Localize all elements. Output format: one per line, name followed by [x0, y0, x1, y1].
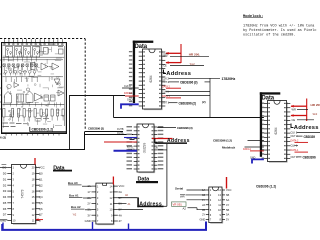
svg-text:CBD3396 (3): CBD3396 (3) — [88, 127, 104, 131]
svg-text:CBD396 (1.2): CBD396 (1.2) — [256, 185, 276, 189]
svg-text:6264: 6264 — [149, 75, 153, 82]
svg-text:Data: Data — [262, 96, 275, 102]
svg-text:DATA A: DATA A — [124, 92, 132, 95]
svg-text:D1: D1 — [3, 177, 7, 181]
svg-text:GND: GND — [0, 219, 6, 223]
svg-text:CBD3396 (1.2): CBD3396 (1.2) — [32, 128, 54, 132]
svg-text:Q7: Q7 — [39, 213, 43, 217]
svg-text:GND: GND — [200, 218, 206, 222]
svg-text:4Y: 4Y — [119, 219, 123, 223]
svg-text:VR 091: VR 091 — [173, 202, 183, 206]
svg-text:CBD3396: CBD3396 — [303, 156, 316, 160]
svg-text:CBD3396 (3): CBD3396 (3) — [177, 126, 193, 130]
svg-text:CBD3396 (2): CBD3396 (2) — [179, 101, 196, 105]
svg-text:HR 200.: HR 200. — [311, 103, 320, 107]
svg-text:Serial: Serial — [175, 187, 183, 191]
svg-text:Q5: Q5 — [39, 201, 43, 205]
svg-text:WR: WR — [163, 54, 167, 58]
svg-text:Q0: Q0 — [39, 171, 43, 175]
svg-text:Bus A0: Bus A0 — [68, 181, 78, 185]
svg-text:CLK 2: CLK 2 — [162, 77, 170, 80]
svg-text:74573: 74573 — [21, 189, 25, 198]
svg-text:OUTB: OUTB — [117, 128, 124, 131]
svg-text:CBD339: CBD339 — [304, 135, 316, 139]
svg-text:D3: D3 — [3, 189, 7, 193]
svg-text:GND: GND — [127, 99, 133, 102]
svg-text:(2): (2) — [202, 100, 206, 104]
svg-text:Modelock: Modelock — [222, 146, 235, 150]
svg-text:GND: GND — [85, 219, 91, 223]
svg-text:3Y: 3Y — [87, 213, 91, 217]
svg-text:2Y: 2Y — [87, 202, 91, 206]
svg-text:D0: D0 — [3, 171, 7, 175]
svg-text:Address: Address — [166, 71, 191, 77]
svg-text:2Y: 2Y — [202, 213, 205, 217]
svg-text:Address: Address — [294, 125, 319, 131]
svg-text:4A: 4A — [119, 213, 123, 217]
svg-text:Q3: Q3 — [39, 189, 43, 193]
svg-text:6A: 6A — [119, 190, 123, 194]
svg-text:6264: 6264 — [274, 127, 278, 134]
svg-text:5Y: 5Y — [226, 218, 229, 222]
svg-text:DGND: DGND — [129, 149, 136, 151]
svg-text:Q1: Q1 — [39, 177, 43, 181]
svg-text:'A2: 'A2 — [73, 213, 77, 217]
svg-text:17820Hz from VCO with +/- 10%: 17820Hz from VCO with +/- 10% tuna — [243, 24, 314, 29]
svg-text:Bus A2: Bus A2 — [71, 205, 81, 209]
svg-text:5A: 5A — [226, 213, 229, 217]
svg-text:by Potentiometer. Is used as P: by Potentiometer. Is used as Pixelc — [243, 28, 317, 33]
svg-text:Q2: Q2 — [39, 183, 43, 187]
svg-text:VCC: VCC — [119, 184, 125, 188]
svg-text:VCC: VCC — [39, 166, 45, 170]
svg-text:CE: CE — [163, 64, 167, 68]
svg-text:1Y: 1Y — [87, 190, 91, 194]
svg-text:Data: Data — [135, 44, 148, 50]
svg-text:'1k2: '1k2 — [312, 112, 318, 116]
svg-text:CBD3396 (3): CBD3396 (3) — [180, 81, 197, 85]
svg-text:WR: WR — [180, 195, 185, 199]
svg-text:DATA A: DATA A — [243, 148, 251, 151]
svg-text:OUT 1: OUT 1 — [162, 102, 170, 105]
svg-text:6A: 6A — [226, 198, 229, 202]
svg-text:OUT 1: OUT 1 — [291, 156, 299, 159]
svg-text:D2: D2 — [3, 183, 7, 187]
svg-text:cbd299: cbd299 — [143, 143, 147, 154]
svg-text:CE: CE — [292, 118, 296, 122]
svg-text:CBD3396 (1.2): CBD3396 (1.2) — [213, 139, 232, 143]
svg-text:CLK A: CLK A — [124, 85, 131, 88]
svg-text:6B: 6B — [226, 193, 229, 197]
svg-text:OUT 2: OUT 2 — [291, 135, 299, 138]
svg-text:oscillator of the cmd299.: oscillator of the cmd299. — [243, 33, 296, 38]
svg-text:Bus A1: Bus A1 — [69, 194, 79, 198]
svg-text:WR: WR — [292, 108, 296, 112]
svg-text:4Y: 4Y — [226, 203, 229, 207]
svg-text:2A: 2A — [202, 203, 205, 207]
svg-text:OUTA: OUTA — [117, 132, 124, 135]
svg-text:A2: A2 — [183, 206, 187, 210]
svg-text:Q4: Q4 — [39, 195, 43, 199]
svg-text:D5: D5 — [3, 201, 7, 205]
svg-text:CLK 2: CLK 2 — [291, 132, 298, 135]
svg-text:Q6: Q6 — [39, 207, 43, 211]
svg-text:D4: D4 — [3, 195, 7, 199]
svg-text:5B: 5B — [226, 208, 229, 212]
svg-text:17820Hz: 17820Hz — [222, 77, 236, 81]
svg-text:OUT 2: OUT 2 — [162, 81, 170, 84]
svg-text:D7: D7 — [3, 213, 7, 217]
svg-text:VCC: VCC — [226, 188, 232, 192]
svg-text:6 (3): 6 (3) — [0, 136, 6, 140]
svg-text:Modelock:: Modelock: — [243, 14, 264, 19]
svg-text:D6: D6 — [3, 207, 7, 211]
